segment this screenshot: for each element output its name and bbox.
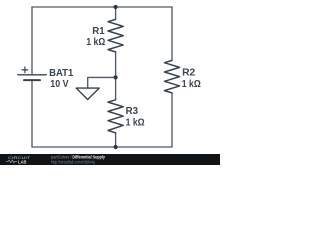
svg-text:BAT1: BAT1 — [49, 68, 74, 79]
wire R3 bottom lead — [115, 133, 117, 147]
wire R1 top lead — [115, 7, 117, 19]
svg-text:1 kΩ: 1 kΩ — [126, 118, 145, 129]
svg-text:LAB: LAB — [18, 159, 27, 164]
wire top horizontal — [32, 6, 172, 8]
svg-text:1 kΩ: 1 kΩ — [86, 37, 105, 48]
node junction top — [114, 5, 118, 9]
resistor R1 — [108, 19, 123, 52]
wire bottom horizontal — [32, 146, 172, 148]
footer logo CircuitLab — [6, 155, 31, 164]
ground — [76, 88, 99, 99]
footer bar — [0, 154, 220, 165]
svg-text:10 V: 10 V — [50, 79, 68, 90]
wire right branch lower — [171, 93, 173, 147]
wire R3 top lead — [115, 77, 117, 99]
resistor R2 — [164, 60, 179, 93]
wire left branch upper — [31, 7, 33, 75]
resistor R3 — [108, 100, 123, 133]
svg-text:http://circuitlab.com/c6bkr4g: http://circuitlab.com/c6bkr4g — [51, 159, 95, 164]
svg-text:R1: R1 — [92, 26, 105, 37]
wire right branch upper — [171, 7, 173, 60]
wire ground branch — [88, 77, 116, 88]
battery BAT1 — [18, 67, 47, 80]
svg-text:1 kΩ: 1 kΩ — [182, 79, 201, 90]
wire R1 bottom lead — [115, 52, 117, 78]
wire left branch lower — [31, 80, 33, 147]
node junction bottom — [114, 145, 118, 149]
svg-text:R3: R3 — [126, 106, 139, 117]
svg-text:R2: R2 — [182, 68, 196, 79]
node junction middle — [114, 75, 118, 79]
